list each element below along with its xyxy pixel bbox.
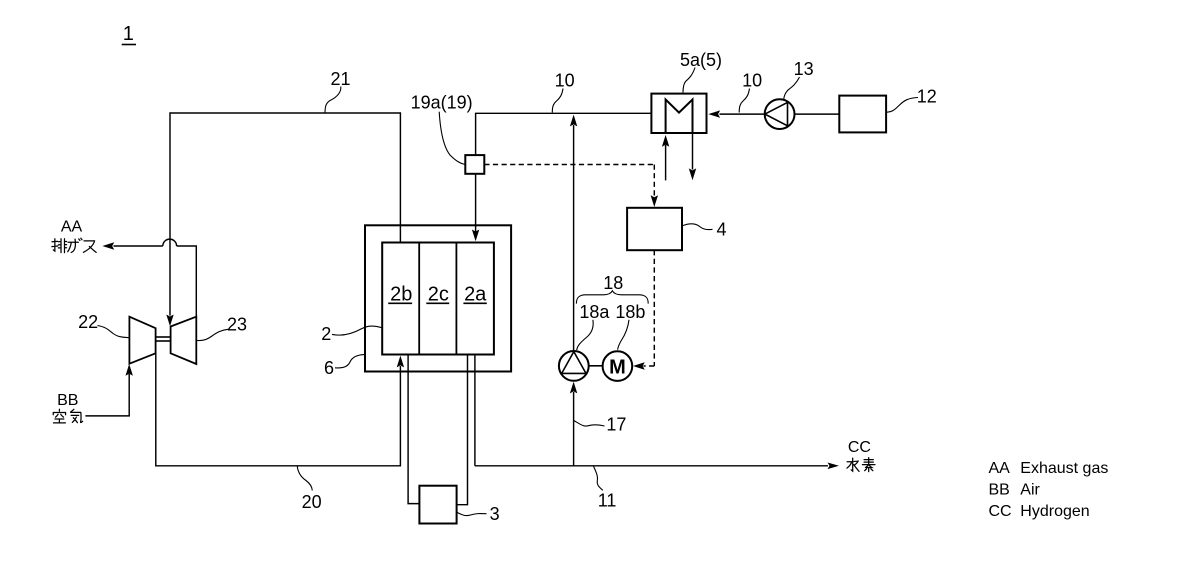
svg-text:11: 11	[598, 491, 617, 511]
svg-text:Hydrogen: Hydrogen	[1020, 503, 1089, 520]
svg-text:12: 12	[917, 87, 937, 107]
svg-text:18b: 18b	[615, 302, 645, 322]
svg-text:1: 1	[123, 23, 134, 45]
svg-text:18a: 18a	[579, 302, 610, 322]
svg-text:CC: CC	[848, 439, 871, 456]
svg-text:5a(5): 5a(5)	[680, 50, 722, 70]
svg-text:21: 21	[330, 69, 350, 89]
svg-text:4: 4	[716, 220, 726, 240]
svg-text:BB: BB	[57, 392, 78, 409]
svg-text:19a(19): 19a(19)	[411, 93, 473, 113]
svg-text:20: 20	[302, 492, 322, 512]
svg-text:2c: 2c	[428, 284, 449, 306]
svg-text:6: 6	[324, 358, 334, 378]
svg-text:2b: 2b	[390, 284, 412, 306]
svg-text:18: 18	[603, 273, 623, 293]
svg-text:13: 13	[794, 59, 814, 79]
svg-text:AA: AA	[61, 219, 83, 236]
svg-text:10: 10	[555, 71, 575, 91]
svg-text:22: 22	[78, 312, 98, 332]
svg-text:2a: 2a	[464, 284, 487, 306]
svg-text:AA: AA	[989, 460, 1011, 477]
svg-text:Exhaust gas: Exhaust gas	[1020, 460, 1108, 477]
svg-text:Air: Air	[1020, 482, 1040, 499]
svg-text:BB: BB	[989, 482, 1010, 499]
svg-text:10: 10	[742, 71, 762, 91]
svg-text:3: 3	[490, 504, 500, 524]
svg-text:CC: CC	[989, 503, 1012, 520]
svg-text:17: 17	[606, 415, 626, 435]
svg-text:2: 2	[321, 324, 331, 344]
svg-text:M: M	[609, 356, 626, 378]
svg-text:23: 23	[227, 315, 247, 335]
